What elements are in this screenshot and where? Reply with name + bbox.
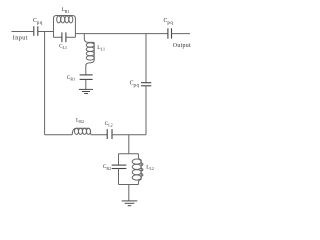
svg-text:Cpq: Cpq <box>130 80 140 88</box>
capacitor CL2 <box>107 129 112 139</box>
wire resonator 2 rail right <box>112 134 146 136</box>
wire shunt stub into LL1 <box>84 34 94 43</box>
svg-text:Input: Input <box>13 35 28 41</box>
svg-text:LL1: LL1 <box>97 45 105 52</box>
svg-text:Cpq: Cpq <box>164 18 174 26</box>
svg-text:CL2: CL2 <box>105 121 113 128</box>
ground (resonator 1) <box>79 89 93 93</box>
ground (resonator 2) <box>122 201 138 206</box>
wire tank 2 right branch lower <box>138 179 141 184</box>
wire input lead <box>12 31 34 33</box>
svg-text:LL2: LL2 <box>146 165 154 172</box>
wire tank bottom left <box>54 36 62 38</box>
wire tank 2 left branch lower <box>118 169 120 185</box>
wire LL1 to CR1 <box>86 60 94 75</box>
wire CR1 to ground <box>85 79 87 89</box>
svg-text:LR2: LR2 <box>76 118 84 125</box>
svg-text:Cpq: Cpq <box>33 18 43 26</box>
wire output lead <box>172 33 191 35</box>
svg-text:CL1: CL1 <box>59 44 67 51</box>
inductor LL2 <box>132 159 143 180</box>
capacitor Cpq (input coupling) <box>34 26 38 36</box>
wire LR2 to CL2 <box>91 134 108 136</box>
capacitor CR1 <box>80 75 93 80</box>
wire tank bottom right <box>66 36 76 38</box>
inductor LL1 <box>86 42 94 60</box>
wire resonator 2 rail left <box>45 134 73 136</box>
wire tank 2 bottom bar <box>119 184 139 186</box>
inductor LR1 <box>57 16 73 23</box>
svg-text:CR1: CR1 <box>67 75 75 82</box>
svg-text:Output: Output <box>173 43 191 49</box>
wire tank 2 to ground <box>128 185 130 201</box>
wire tank right edge <box>72 16 75 38</box>
inductor LR2 <box>72 128 91 135</box>
capacitor CR2 <box>112 165 127 168</box>
capacitor Cpq (output coupling) <box>168 28 172 38</box>
wire input cap to tank <box>38 31 54 33</box>
svg-text:CR2: CR2 <box>103 164 111 171</box>
wire tank 2 left branch upper <box>118 154 120 165</box>
wire Cpq shunt upper <box>145 34 147 83</box>
wire tank left edge <box>54 16 57 38</box>
svg-text:LR1: LR1 <box>62 7 70 14</box>
node junction to resonator 2 feed <box>44 32 46 135</box>
wire main rail tank to output cap <box>75 33 167 35</box>
wire tank 2 right branch upper <box>138 154 141 160</box>
wire Cpq shunt lower <box>145 86 147 135</box>
capacitor CL1 <box>62 32 66 42</box>
capacitor Cpq (inter-resonator coupling) <box>141 83 151 86</box>
wire shunt stub resonator 2 <box>128 135 130 154</box>
wire tank 2 top bar <box>119 153 139 155</box>
